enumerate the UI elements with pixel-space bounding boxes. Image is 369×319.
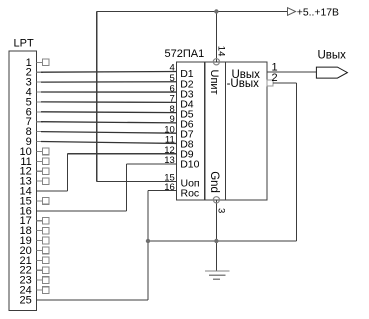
svg-text:LPT: LPT <box>14 38 34 50</box>
svg-text:Uпит: Uпит <box>208 70 220 95</box>
svg-text:Uвых: Uвых <box>318 49 347 61</box>
svg-text:Rос: Rос <box>181 187 200 199</box>
svg-text:3: 3 <box>215 208 226 213</box>
svg-text:25: 25 <box>20 294 32 306</box>
svg-text:2: 2 <box>271 72 277 84</box>
svg-text:13: 13 <box>164 155 175 166</box>
svg-text:-Uвых: -Uвых <box>227 78 260 90</box>
svg-text:Gnd: Gnd <box>208 171 220 193</box>
svg-text:16: 16 <box>164 182 175 193</box>
svg-text:D10: D10 <box>180 159 199 171</box>
svg-text:572ПА1: 572ПА1 <box>165 48 205 60</box>
svg-text:14: 14 <box>215 46 226 57</box>
svg-text:+5..+17В: +5..+17В <box>297 7 339 18</box>
